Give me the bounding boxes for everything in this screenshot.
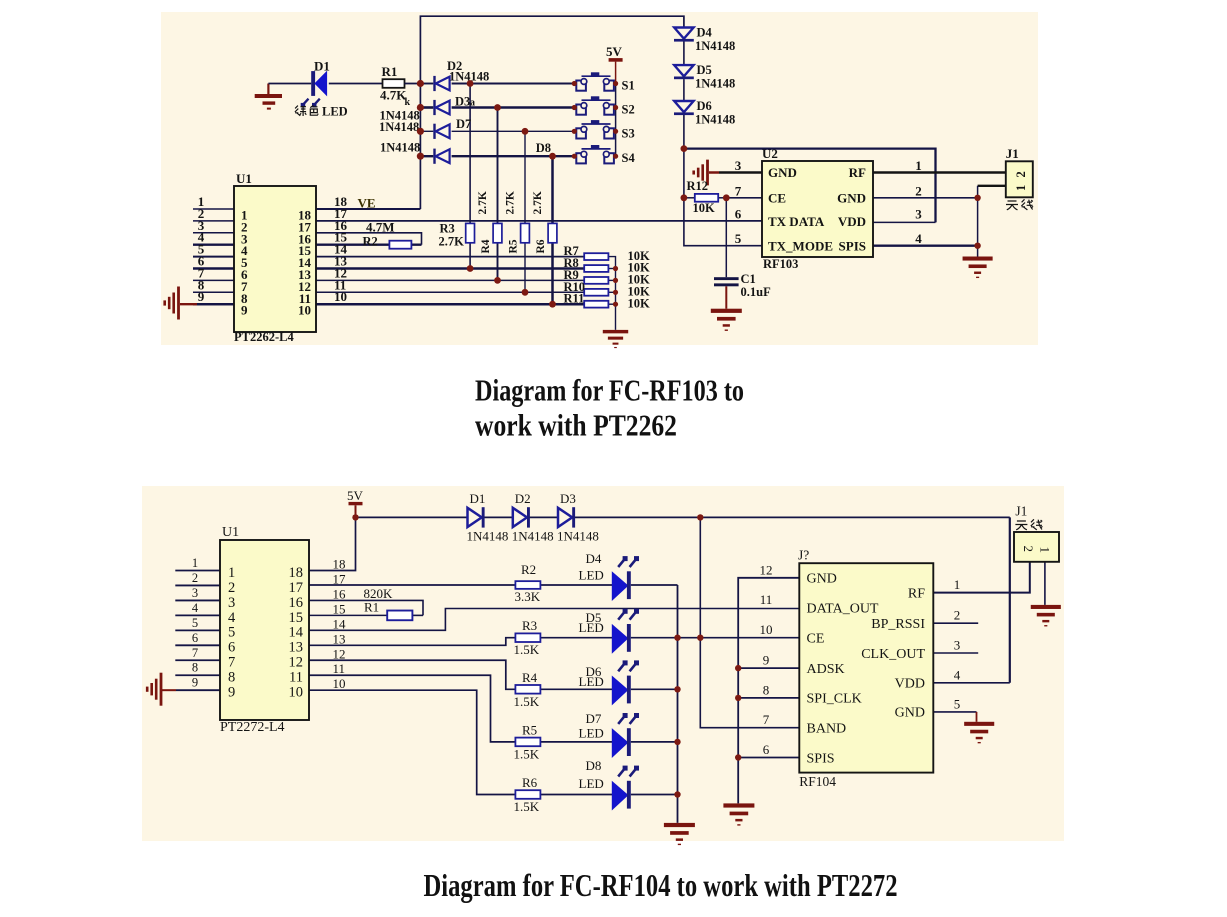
svg-text:1: 1 — [228, 565, 235, 581]
svg-text:14: 14 — [333, 616, 347, 631]
svg-text:LED: LED — [579, 725, 604, 740]
wire pin11 row — [316, 291, 584, 293]
resistor R2 4.7M — [389, 241, 411, 249]
label D3 — [560, 491, 576, 506]
wire pin13 row — [316, 267, 584, 270]
svg-text:9: 9 — [241, 303, 248, 318]
ground (GND pin5) — [964, 722, 994, 744]
svg-text:R6: R6 — [535, 239, 547, 253]
ground (left of LED D1) — [255, 84, 282, 110]
label RF104 — [799, 774, 836, 789]
ground (J1 bottom) — [1031, 605, 1061, 627]
svg-text:J1: J1 — [1006, 146, 1019, 161]
svg-text:GND: GND — [837, 191, 866, 206]
wire pin14 row — [316, 256, 584, 258]
svg-text:9: 9 — [192, 676, 198, 690]
svg-text:LED: LED — [579, 776, 604, 791]
label 10K — [628, 296, 651, 310]
label R7 — [564, 244, 579, 258]
U2 pin names — [768, 165, 866, 254]
wire CLK_OUT stub — [933, 652, 978, 654]
svg-text:11: 11 — [760, 592, 773, 607]
wire 5V to keys column — [615, 62, 617, 157]
ground (pullup bus) — [603, 330, 628, 348]
ground (U1 pin9 bottom) — [146, 673, 163, 706]
svg-text:10: 10 — [334, 289, 347, 304]
svg-text:RF: RF — [908, 586, 925, 601]
resistor R8 10K — [584, 265, 608, 272]
wire GND bus (J?) — [738, 578, 799, 804]
label D6 — [697, 99, 712, 113]
wire U2 VDD stub — [873, 221, 936, 223]
label PT2262-L4 — [234, 330, 294, 344]
label R9 — [564, 268, 579, 282]
connector J1 (bottom) — [1014, 532, 1059, 562]
svg-text:5: 5 — [735, 231, 742, 246]
svg-text:3: 3 — [192, 586, 198, 600]
wire pin18 to 5V — [309, 517, 356, 570]
svg-text:R1: R1 — [382, 64, 398, 79]
svg-text:D3: D3 — [455, 95, 470, 109]
label 10K — [628, 273, 651, 287]
label 1.5K — [514, 642, 540, 657]
label R2 — [363, 235, 378, 249]
label D1 — [314, 59, 330, 74]
label 2.7K (R3) — [439, 235, 465, 249]
label D4 — [697, 26, 713, 40]
svg-text:1N4148: 1N4148 — [467, 529, 509, 544]
wire SPIS stub — [738, 757, 799, 759]
label R3 — [522, 618, 537, 633]
junction dots bottom schematic — [352, 514, 741, 798]
svg-text:6: 6 — [735, 206, 742, 221]
svg-text:D2: D2 — [515, 491, 531, 506]
svg-text:6: 6 — [228, 640, 235, 656]
svg-text:2.7K: 2.7K — [505, 191, 517, 214]
label R6 — [522, 775, 538, 790]
label S1 — [622, 79, 635, 93]
diode D1 1N4148 (bottom) — [468, 507, 485, 527]
wire pullup joint — [608, 291, 615, 293]
pushbutton S4 — [576, 145, 614, 163]
svg-text:3.3K: 3.3K — [515, 589, 541, 604]
capacitor C1 0.1uF — [714, 277, 739, 309]
svg-text:R5: R5 — [522, 722, 537, 737]
wire R1 to VE — [405, 83, 421, 85]
label 4.7K — [380, 88, 411, 109]
LED D1 (green) — [301, 71, 327, 107]
svg-text:5: 5 — [192, 616, 198, 630]
svg-text:4: 4 — [192, 601, 199, 615]
wire VDD drop — [1009, 517, 1011, 682]
resistor R12 10K — [695, 194, 718, 202]
svg-text:R2: R2 — [363, 235, 378, 249]
svg-text:S1: S1 — [622, 79, 635, 93]
svg-text:7: 7 — [228, 655, 235, 671]
wire VDD stub (J?) — [933, 682, 1010, 684]
svg-text:R11: R11 — [564, 292, 585, 306]
label 1.5K — [514, 746, 540, 761]
svg-text:17: 17 — [289, 580, 304, 596]
svg-text:13: 13 — [289, 640, 304, 656]
IC U1 PT2262-L4 — [234, 186, 316, 332]
label C1 — [741, 272, 756, 286]
svg-text:D1: D1 — [470, 491, 486, 506]
svg-text:a: a — [470, 98, 475, 109]
label D8 — [586, 758, 602, 773]
wire pin15 to R2 — [316, 244, 422, 246]
svg-text:15: 15 — [289, 610, 304, 626]
svg-text:1.5K: 1.5K — [514, 694, 540, 709]
svg-text:9: 9 — [763, 653, 770, 668]
svg-text:14: 14 — [289, 625, 304, 641]
svg-text:R1: R1 — [364, 600, 379, 615]
resistor R11 10K — [584, 301, 608, 308]
svg-text:3: 3 — [735, 158, 742, 173]
svg-text:4.7M: 4.7M — [366, 220, 395, 235]
svg-text:9: 9 — [198, 289, 205, 304]
svg-text:2: 2 — [1021, 546, 1036, 553]
IC J? RF104 — [799, 563, 933, 772]
resistor R1 4.7K — [383, 79, 405, 88]
wire 5V rail — [356, 516, 1010, 518]
svg-text:1: 1 — [954, 577, 961, 592]
label 4.7M — [366, 220, 395, 235]
svg-text:15: 15 — [333, 601, 346, 616]
svg-text:BP_RSSI: BP_RSSI — [871, 617, 925, 632]
label R5 rotated — [505, 191, 520, 253]
wire 2.7K column 1 — [469, 84, 471, 269]
wire ground to D1 — [268, 83, 311, 85]
svg-text:RF103: RF103 — [763, 257, 798, 271]
svg-text:10: 10 — [289, 685, 304, 701]
wire GND pin5 stub — [933, 712, 976, 722]
label D7 — [456, 117, 471, 131]
svg-text:6: 6 — [192, 631, 198, 645]
resistor R1 820K (bottom) — [387, 611, 412, 621]
svg-text:PT2272-L4: PT2272-L4 — [220, 720, 285, 735]
svg-text:D7: D7 — [586, 711, 602, 726]
svg-text:D6: D6 — [697, 99, 712, 113]
label R6 rotated — [532, 191, 547, 253]
resistor R7 10K — [584, 253, 608, 260]
label 0.1uF — [741, 285, 772, 299]
wire key row 2 — [420, 106, 574, 109]
svg-text:S4: S4 — [622, 151, 636, 165]
ground (J1 top / SPIS) — [963, 257, 993, 279]
svg-text:1: 1 — [1038, 547, 1053, 554]
wire VDD rail — [684, 149, 936, 223]
label S4 — [622, 151, 636, 165]
svg-text:10K: 10K — [628, 296, 651, 310]
U2 pin numbers — [735, 158, 923, 246]
svg-text:6: 6 — [763, 742, 770, 757]
svg-text:8: 8 — [763, 682, 770, 697]
svg-text:SPIS: SPIS — [839, 239, 866, 254]
wire pin11 to R5/D7 — [309, 675, 678, 742]
svg-text:7: 7 — [763, 712, 770, 727]
svg-text:3: 3 — [915, 206, 922, 221]
wire pullup joint — [608, 279, 615, 281]
svg-text:0.1uF: 0.1uF — [741, 285, 772, 299]
label R1 (bottom) — [364, 600, 379, 615]
label R5 — [522, 722, 537, 737]
wire pullup joint — [608, 268, 615, 270]
svg-text:1: 1 — [1014, 185, 1028, 191]
wire U2 GND pin2 — [873, 197, 978, 199]
ground (U1 pin9) — [163, 287, 180, 320]
label 1N4148 (D3) — [380, 109, 420, 123]
label D8 — [536, 141, 551, 155]
svg-text:J1: J1 — [1015, 504, 1027, 519]
svg-text:GND: GND — [807, 572, 837, 587]
wire pin10 to R6/D8 — [309, 690, 678, 794]
svg-text:18: 18 — [289, 565, 304, 581]
svg-text:13: 13 — [333, 631, 346, 646]
svg-text:LED: LED — [579, 568, 604, 583]
wire U2 GND pin3 — [709, 171, 762, 174]
svg-text:D3: D3 — [560, 491, 576, 506]
svg-text:R3: R3 — [440, 222, 455, 236]
ground (C1) — [711, 309, 742, 331]
LED D8 — [612, 766, 639, 810]
label D7 — [586, 711, 602, 726]
svg-text:3: 3 — [954, 638, 961, 653]
junction dots top schematic — [417, 80, 981, 308]
svg-text:2: 2 — [1014, 171, 1028, 177]
svg-text:4: 4 — [228, 610, 236, 626]
svg-text:7: 7 — [735, 183, 742, 198]
svg-text:CLK_OUT: CLK_OUT — [861, 647, 925, 662]
label LED (D6) — [579, 674, 604, 689]
diode D4 1N4148 — [674, 28, 694, 42]
wire J1 pin1 to ground — [978, 186, 1006, 257]
svg-text:1N4148: 1N4148 — [380, 141, 420, 155]
wire R12 net — [684, 197, 762, 199]
label 820K — [364, 586, 394, 601]
wire SPI_CLK stub — [738, 697, 799, 699]
svg-text:12: 12 — [289, 655, 304, 671]
svg-text:D8: D8 — [586, 758, 602, 773]
wire BAND riser — [700, 517, 799, 727]
label LED (D8) — [579, 776, 604, 791]
svg-text:J?: J? — [798, 548, 809, 563]
wire U1 pin9 to ground (bottom) — [162, 689, 220, 691]
label 1.5K — [514, 799, 540, 814]
svg-text:1.5K: 1.5K — [514, 799, 540, 814]
svg-text:S3: S3 — [622, 126, 635, 140]
U1 pin numbers — [198, 194, 348, 318]
wire diode chain / TX_MODE net — [684, 115, 762, 246]
svg-text:8: 8 — [228, 670, 235, 686]
svg-text:work with PT2262: work with PT2262 — [475, 408, 677, 443]
svg-text:LED: LED — [579, 674, 604, 689]
resistor R6 2.7K — [548, 223, 557, 242]
svg-text:5: 5 — [954, 696, 961, 711]
svg-text:ADSK: ADSK — [807, 662, 845, 677]
svg-text:C1: C1 — [741, 272, 756, 286]
wire U2 SPIS pin4 — [873, 245, 978, 247]
LED D5 — [612, 609, 639, 653]
svg-text:1.5K: 1.5K — [514, 642, 540, 657]
wire TX data row (U1 pin17 to U2 pin6) — [316, 220, 762, 222]
svg-text:k: k — [405, 97, 411, 108]
wire LED cathode bus — [677, 585, 679, 823]
label D4 — [586, 551, 602, 566]
bottom schematic panel background — [142, 486, 1064, 841]
svg-text:D7: D7 — [456, 117, 471, 131]
wire 2.7K column 3 — [524, 131, 526, 292]
resistor R5 2.7K — [521, 223, 530, 242]
LED D4 — [612, 556, 639, 600]
svg-text:D5: D5 — [697, 63, 712, 77]
svg-text:RF104: RF104 — [799, 774, 836, 789]
wire pin17 to R2/D4 — [309, 584, 515, 586]
svg-text:2: 2 — [954, 608, 961, 623]
label 1N4148 (D7) — [379, 120, 419, 134]
label R12 — [687, 179, 709, 193]
label S2 — [622, 103, 635, 117]
svg-text:2.7K: 2.7K — [477, 191, 489, 214]
LED D7 — [612, 713, 639, 757]
wire ADSK stub — [738, 667, 799, 669]
label U2 — [762, 146, 778, 161]
svg-text:1: 1 — [192, 556, 198, 570]
svg-text:4: 4 — [954, 667, 961, 682]
svg-text:16: 16 — [289, 595, 304, 611]
J? pin names — [807, 572, 926, 767]
svg-text:LED: LED — [579, 620, 604, 635]
wire RF to J1 (bottom) — [933, 562, 1030, 593]
label 1N4148 (D1 bottom) — [467, 529, 509, 544]
label 1N4148 (D8) — [380, 141, 420, 155]
resistor R6 1.5K — [515, 790, 540, 799]
top schematic panel background — [161, 12, 1038, 345]
svg-text:2: 2 — [192, 571, 198, 585]
diode D6 1N4148 — [674, 101, 694, 115]
label D1 — [470, 491, 486, 506]
wire key row 1 — [420, 83, 574, 85]
svg-text:2.7K: 2.7K — [439, 235, 465, 249]
label 1.5K — [514, 694, 540, 709]
wire pullup joint — [608, 303, 615, 305]
svg-text:D4: D4 — [697, 26, 713, 40]
svg-text:1N4148: 1N4148 — [512, 529, 554, 544]
wire pin12 to R4/D6 — [309, 660, 678, 689]
label R8 — [564, 256, 579, 270]
wire pin14 to DATA_OUT — [309, 609, 799, 631]
label D6 — [586, 664, 602, 679]
label R4 rotated — [477, 191, 492, 253]
label LED (D4) — [579, 568, 604, 583]
wire 2.7K column 2 — [497, 108, 499, 281]
svg-text:SPIS: SPIS — [807, 751, 835, 766]
resistor R3 2.7K — [466, 223, 475, 242]
label 绿色LED — [295, 105, 348, 119]
resistor R10 10K — [584, 289, 608, 296]
U1 pin numbers (bottom) — [192, 556, 346, 701]
svg-text:GND: GND — [895, 706, 925, 721]
svg-text:RF: RF — [849, 165, 866, 180]
svg-text:11: 11 — [289, 670, 303, 686]
pushbutton S2 — [576, 96, 614, 114]
svg-text:R2: R2 — [521, 562, 536, 577]
svg-text:D4: D4 — [586, 551, 602, 566]
svg-text:1N4148: 1N4148 — [695, 77, 735, 91]
label LED (D5) — [579, 620, 604, 635]
svg-text:10K: 10K — [693, 201, 716, 215]
label 1N4148 (D4) — [695, 39, 735, 53]
svg-text:1N4148: 1N4148 — [557, 529, 599, 544]
diode D2 1N4148 — [433, 76, 449, 91]
wire U1 left pin stubs — [193, 209, 234, 304]
label 1N4148 (D3 bottom) — [557, 529, 599, 544]
label VE — [358, 196, 376, 211]
J? pin numbers — [760, 562, 961, 757]
wire diode chain segments — [683, 42, 685, 102]
label U1 — [236, 171, 252, 186]
wire pin18 VE stub — [316, 208, 420, 210]
svg-text:18: 18 — [333, 557, 346, 572]
J1 pin numbers — [1014, 171, 1028, 191]
svg-text:VDD: VDD — [895, 677, 925, 692]
svg-text:4.7K: 4.7K — [380, 88, 407, 103]
wire U1 pin9 to ground — [180, 303, 234, 305]
5V power symbol — [606, 44, 623, 62]
svg-text:11: 11 — [333, 661, 346, 676]
wire U2 RF to J1 pin2 — [873, 171, 1006, 173]
wire pin12 row — [316, 279, 584, 281]
svg-text:17: 17 — [333, 571, 347, 586]
diode D3 1N4148 (bottom) — [558, 507, 575, 527]
wire pullup bus to ground — [608, 257, 615, 330]
label R4 — [522, 670, 538, 685]
diode D5 1N4148 — [674, 65, 694, 79]
J1 pin numbers (bottom) — [1021, 546, 1053, 554]
svg-text:1N4148: 1N4148 — [695, 113, 735, 127]
svg-text:R5: R5 — [508, 239, 520, 253]
svg-text:10: 10 — [333, 676, 346, 691]
svg-text:9: 9 — [228, 685, 235, 701]
label D3 — [455, 95, 475, 109]
svg-text:CE: CE — [768, 191, 786, 206]
svg-text:Diagram for FC-RF104 to work w: Diagram for FC-RF104 to work with PT2272 — [424, 868, 898, 903]
svg-text:R6: R6 — [522, 775, 538, 790]
ground (LED bus) — [664, 823, 695, 845]
wire pin16 oscillator elbow — [316, 233, 422, 245]
pushbutton S3 — [576, 120, 614, 138]
label R1 — [382, 64, 398, 79]
wire C1 net — [725, 198, 727, 277]
svg-text:4: 4 — [915, 231, 922, 246]
label LED (D7) — [579, 725, 604, 740]
wire D4 to LED bus — [631, 584, 678, 586]
resistor R4 1.5K — [515, 685, 540, 694]
label U1 (bottom) — [222, 525, 239, 540]
label J1 (bottom) — [1015, 504, 1027, 519]
svg-text:1N4148: 1N4148 — [379, 120, 419, 134]
svg-text:10: 10 — [298, 303, 311, 318]
label 10K — [628, 249, 651, 263]
diode D3 1N4148 — [433, 100, 449, 115]
svg-text:2.7K: 2.7K — [532, 191, 544, 214]
wire VE vertical and top rail — [420, 16, 684, 209]
svg-text:12: 12 — [333, 646, 346, 661]
label 1N4148 (D5) — [695, 77, 735, 91]
svg-text:16: 16 — [333, 586, 347, 601]
diode D7 1N4148 — [433, 124, 449, 139]
svg-text:U2: U2 — [762, 146, 778, 161]
